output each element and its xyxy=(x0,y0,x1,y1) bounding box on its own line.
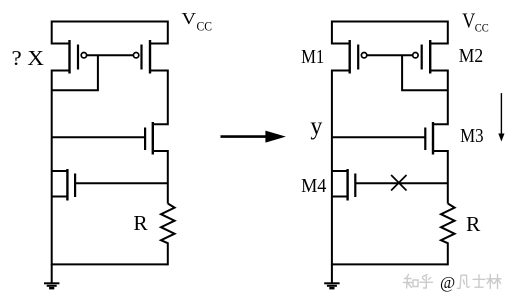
wire: gate-to-gate xyxy=(87,54,133,56)
wire: NL2 gate to right branch xyxy=(75,182,168,184)
nmos NL1 channel xyxy=(152,122,154,155)
wire: gate tie (diode connection M2) xyxy=(402,55,448,90)
wire: bottom rail xyxy=(52,263,168,265)
pmos M2 bubble xyxy=(413,53,418,58)
wire: PL2 drain down to NL1 drain xyxy=(150,71,168,125)
current direction arrow (down) xyxy=(498,93,504,141)
X cross on M4 gate wire xyxy=(391,175,406,191)
ground (left) xyxy=(51,264,53,283)
nmos NL2 drain stub xyxy=(52,170,68,172)
nmos M4 source stub xyxy=(332,196,348,198)
char 知 xyxy=(404,275,413,289)
nmos NL2 channel xyxy=(66,169,68,201)
nmos NL1 gate bar xyxy=(144,128,146,151)
pmos PL1 bubble xyxy=(81,53,86,58)
nmos M3 gate bar xyxy=(424,128,426,151)
svg-text:V: V xyxy=(462,8,476,32)
VCC rail (right circuit) xyxy=(332,21,448,23)
pmos PL1 channel xyxy=(68,40,70,74)
char 乎 xyxy=(420,275,433,289)
svg-text:M4: M4 xyxy=(301,175,326,197)
nmos M4 drain stub xyxy=(332,170,348,172)
wire: node y, M3 gate to left rail xyxy=(332,136,425,138)
char 林 xyxy=(487,275,494,289)
pmos M1 channel xyxy=(349,40,351,74)
svg-text:CC: CC xyxy=(197,19,213,33)
watermark 知乎 @凡士林 xyxy=(404,275,502,289)
nmos M4 channel xyxy=(346,169,348,201)
nmos M3 channel xyxy=(432,122,434,155)
svg-text:? X: ? X xyxy=(12,46,45,70)
pmos M2 gate bar xyxy=(421,45,423,70)
svg-text:M2: M2 xyxy=(459,45,483,67)
wire: PL1 drain down left side to bottom xyxy=(52,71,70,266)
wire: rail to M-left source xyxy=(52,21,70,44)
wire: gate tie (diode connection) xyxy=(52,55,98,90)
pmos M1 bubble xyxy=(361,53,366,58)
svg-text:CC: CC xyxy=(475,21,489,35)
svg-text:y: y xyxy=(310,113,322,140)
wire: M2 drain down to M3 drain xyxy=(430,71,448,125)
svg-text:R: R xyxy=(133,211,147,235)
wire: M1 drain down left side to bottom xyxy=(332,71,350,266)
pmos PL2 gate bar xyxy=(140,45,142,70)
wire: NL1 source down to resistor xyxy=(153,151,168,204)
pmos M2 channel xyxy=(429,40,431,74)
svg-text:M3: M3 xyxy=(460,125,484,147)
ground (right) xyxy=(331,264,333,283)
wire: PL2 source to rail xyxy=(150,21,168,44)
pmos PL2 bubble xyxy=(133,53,138,58)
nmos NL2 gate bar xyxy=(74,174,76,198)
nmos NL2 source stub xyxy=(52,196,68,198)
svg-text:M1: M1 xyxy=(301,46,324,68)
pmos M1 gate bar xyxy=(357,45,359,70)
wire: M3 source down to resistor xyxy=(433,151,448,204)
svg-text:R: R xyxy=(466,212,480,236)
svg-text:@: @ xyxy=(440,273,455,292)
wire: rail to M1 source xyxy=(332,21,350,44)
resistor R (right) xyxy=(441,204,455,266)
wire: M4 gate to right branch (crossed out) xyxy=(355,182,448,184)
char 士 xyxy=(473,275,485,287)
wire: NL1 gate to left rail xyxy=(52,136,145,138)
wire: M2 source to rail xyxy=(430,21,448,44)
pmos PL2 channel xyxy=(149,40,151,74)
arrow between circuits xyxy=(221,131,286,143)
wire: gate-to-gate xyxy=(367,54,412,56)
char 凡 xyxy=(457,275,469,288)
wire: bottom rail xyxy=(332,263,448,265)
nmos M4 gate bar xyxy=(354,174,356,198)
resistor R (left) xyxy=(161,204,175,266)
svg-text:V: V xyxy=(182,9,197,28)
pmos PL1 gate bar xyxy=(77,45,79,70)
VCC rail (left circuit) xyxy=(52,21,168,23)
